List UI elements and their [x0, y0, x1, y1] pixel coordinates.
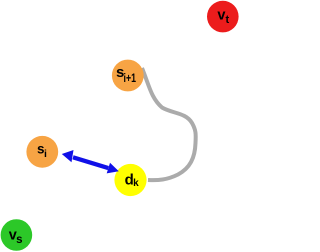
node s_i+1 — [112, 60, 144, 92]
node v_s — [1, 219, 33, 251]
wire gray curved edge from s_i+1 to d_k — [142, 68, 196, 180]
node v_t — [207, 1, 239, 33]
right arrowhead — [107, 163, 119, 174]
left arrowhead — [62, 150, 74, 162]
node d_k — [114, 164, 146, 196]
arrow shaft — [72, 155, 109, 170]
node s_i — [26, 136, 58, 168]
blue double arrow between s_i and d_k — [62, 150, 119, 173]
